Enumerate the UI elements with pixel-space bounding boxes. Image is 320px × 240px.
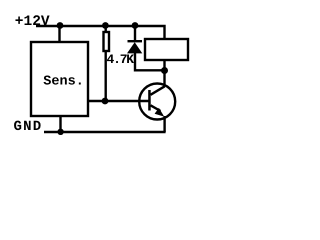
transistor Q1 emitter arrowhead [155, 108, 165, 117]
wire from +12V rail down to diode cathode [134, 26, 136, 42]
wire from +12V rail down to Sens box top [58, 26, 60, 43]
wire relay bottom down to transistor collector [163, 61, 165, 87]
wire resistor bottom down to transistor base wire [104, 51, 106, 101]
wire Sens output to transistor base [88, 100, 149, 102]
wire Sens bottom down to ground rail [59, 115, 61, 132]
transistor Q1 base bar [148, 90, 151, 111]
node junction above Sens box [57, 22, 64, 29]
svg-text:+12V: +12V [15, 14, 50, 30]
node junction above resistor [102, 22, 109, 29]
transistor Q1 collector stroke [151, 86, 165, 95]
wire +12V rail with corner down to relay top [36, 26, 165, 40]
diode D1 anode triangle pointing up [127, 42, 142, 53]
transistor Q1 emitter stroke [151, 105, 161, 111]
diode D1 cathode bar [128, 40, 143, 42]
node junction resistor on base wire [102, 98, 109, 105]
node junction Sens ground [57, 129, 63, 135]
wire from +12V rail down to resistor top [104, 26, 106, 33]
relay K1 coil box [145, 39, 188, 60]
node junction collector / diode / relay [161, 67, 168, 74]
wire emitter down to ground rail [163, 116, 165, 132]
wire diode anode down and right to collector node [135, 53, 165, 70]
svg-text:GND: GND [14, 119, 43, 135]
sensor box U1 [31, 42, 88, 116]
wire ground rail [44, 131, 166, 133]
transistor Q1 body circle [139, 84, 175, 120]
resistor R1 body [104, 32, 110, 51]
svg-text:4.7K: 4.7K [107, 52, 135, 67]
svg-text:Sens.: Sens. [43, 75, 84, 90]
node junction above diode [132, 22, 139, 29]
